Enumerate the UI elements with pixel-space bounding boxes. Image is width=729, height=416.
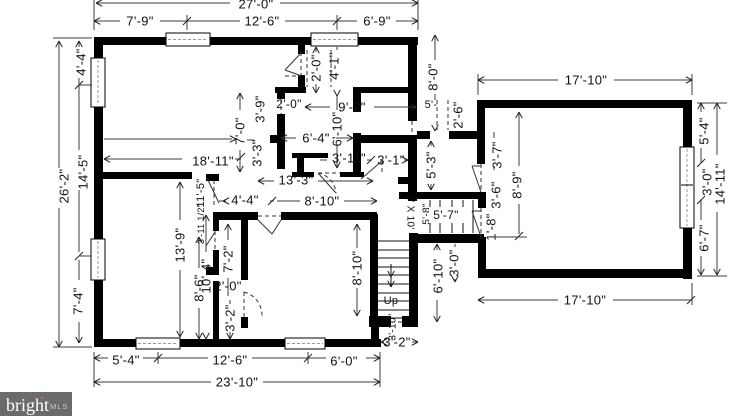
svg-text:8'-9": 8'-9": [510, 171, 525, 198]
svg-text:17'-10": 17'-10": [564, 293, 607, 308]
svg-text:3'-7": 3'-7": [490, 141, 505, 168]
svg-text:7'-2": 7'-2": [221, 245, 236, 272]
svg-text:3'-6": 3'-6": [489, 181, 504, 208]
svg-text:4'-1": 4'-1": [327, 52, 342, 79]
svg-text:13'-9": 13'-9": [173, 227, 188, 262]
svg-text:3'-11 1/2": 3'-11 1/2": [196, 204, 206, 244]
svg-text:11'-5": 11'-5": [195, 178, 207, 207]
svg-text:12'-6": 12'-6": [213, 353, 248, 368]
svg-text:6'-10": 6'-10": [330, 111, 345, 146]
svg-text:6'-4": 6'-4": [302, 131, 329, 146]
svg-text:3'-9": 3'-9": [253, 95, 268, 122]
svg-text:6'-7": 6'-7": [697, 224, 712, 251]
svg-text:5'-: 5'-: [425, 99, 438, 111]
svg-text:2'-0": 2'-0": [276, 97, 301, 111]
svg-text:18'-11": 18'-11": [192, 154, 234, 169]
svg-text:6'-0": 6'-0": [330, 354, 357, 369]
svg-text:2' X 10': 2' X 10': [405, 194, 416, 229]
svg-text:14'-5": 14'-5": [76, 154, 91, 189]
svg-text:8'-10": 8'-10": [350, 250, 365, 285]
svg-text:Up: Up: [384, 295, 399, 307]
svg-text:7'-9": 7'-9": [126, 14, 153, 29]
svg-text:5'-7": 5'-7": [433, 208, 458, 222]
svg-text:3'-1": 3'-1": [377, 153, 404, 168]
svg-text:3'-3": 3'-3": [250, 139, 265, 166]
svg-text:3'-2": 3'-2": [383, 335, 410, 350]
svg-text:4'-4": 4'-4": [74, 48, 89, 75]
svg-text:17'-10": 17'-10": [565, 73, 608, 88]
svg-text:6'-9": 6'-9": [363, 14, 390, 29]
svg-text:MLS: MLS: [50, 402, 68, 411]
svg-text:2'-0": 2'-0": [309, 54, 324, 81]
svg-text:2'-0": 2'-0": [214, 279, 241, 294]
svg-text:3'-2": 3'-2": [223, 304, 238, 331]
svg-text:3'-0": 3'-0": [447, 249, 462, 276]
svg-text:6'-10": 6'-10": [431, 258, 446, 293]
svg-text:5'-4": 5'-4": [112, 353, 139, 368]
svg-text:12'-6": 12'-6": [245, 14, 280, 29]
svg-text:8'-0": 8'-0": [426, 63, 441, 90]
svg-text:10'-4": 10'-4": [199, 258, 214, 293]
svg-text:7'-0": 7'-0": [233, 117, 248, 144]
svg-text:14'-11": 14'-11": [713, 163, 728, 205]
svg-text:13'-3": 13'-3": [279, 173, 314, 188]
svg-text:26'-2": 26'-2": [57, 168, 72, 203]
svg-text:3'-11": 3'-11": [332, 151, 366, 166]
svg-text:5'-3": 5'-3": [424, 151, 439, 178]
svg-text:23'-10": 23'-10": [216, 375, 259, 390]
svg-text:27'-0": 27'-0": [239, 0, 274, 12]
svg-text:2'-6": 2'-6": [451, 101, 466, 128]
svg-text:8'-10": 8'-10": [305, 194, 340, 209]
svg-text:7'-4": 7'-4": [71, 287, 86, 314]
svg-text:5'-4": 5'-4": [697, 117, 712, 144]
svg-text:4'-4": 4'-4": [231, 193, 258, 208]
